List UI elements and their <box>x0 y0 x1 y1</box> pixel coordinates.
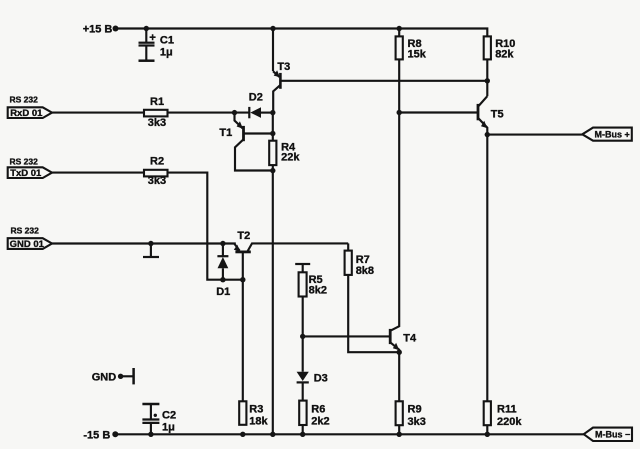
svg-text:1μ: 1μ <box>160 47 173 59</box>
svg-text:RS 232: RS 232 <box>10 156 39 166</box>
svg-text:-15 B: -15 B <box>83 429 110 441</box>
svg-text:T2: T2 <box>237 230 250 242</box>
svg-text:GND 01: GND 01 <box>10 239 45 250</box>
svg-text:RxD 01: RxD 01 <box>10 108 43 119</box>
svg-text:D1: D1 <box>216 286 230 298</box>
svg-text:RS 232: RS 232 <box>10 94 39 104</box>
svg-text:M-Bus +: M-Bus + <box>595 130 630 140</box>
svg-text:R3: R3 <box>249 403 263 415</box>
svg-text:R2: R2 <box>150 156 164 168</box>
svg-text:T3: T3 <box>277 61 290 73</box>
svg-text:GND: GND <box>92 371 117 383</box>
svg-text:R9: R9 <box>408 403 422 415</box>
svg-text:+15 B: +15 B <box>83 23 113 35</box>
svg-text:82k: 82k <box>495 49 514 61</box>
svg-text:C2: C2 <box>162 410 176 422</box>
svg-text:2k2: 2k2 <box>311 416 329 428</box>
svg-text:R6: R6 <box>311 404 325 416</box>
svg-text:D2: D2 <box>249 92 263 104</box>
svg-text:18k: 18k <box>249 415 268 427</box>
svg-text:T1: T1 <box>219 127 232 139</box>
svg-text:R11: R11 <box>497 403 517 415</box>
svg-text:TxD 01: TxD 01 <box>10 168 42 179</box>
svg-text:3k3: 3k3 <box>148 117 166 129</box>
svg-text:3k3: 3k3 <box>148 175 166 187</box>
svg-text:8k2: 8k2 <box>309 285 327 297</box>
svg-text:22k: 22k <box>281 151 300 163</box>
svg-text:8k8: 8k8 <box>356 265 374 277</box>
svg-text:M-Bus −: M-Bus − <box>595 430 630 440</box>
svg-text:220k: 220k <box>497 416 522 428</box>
svg-text:1μ: 1μ <box>162 422 175 434</box>
svg-text:15k: 15k <box>408 49 427 61</box>
svg-text:T4: T4 <box>403 332 417 344</box>
svg-text:C1: C1 <box>160 35 174 47</box>
svg-text:D3: D3 <box>314 373 328 385</box>
svg-text:R1: R1 <box>150 96 164 108</box>
svg-text:T5: T5 <box>491 109 504 121</box>
svg-text:RS 232: RS 232 <box>11 225 40 235</box>
svg-text:3k3: 3k3 <box>408 416 426 428</box>
